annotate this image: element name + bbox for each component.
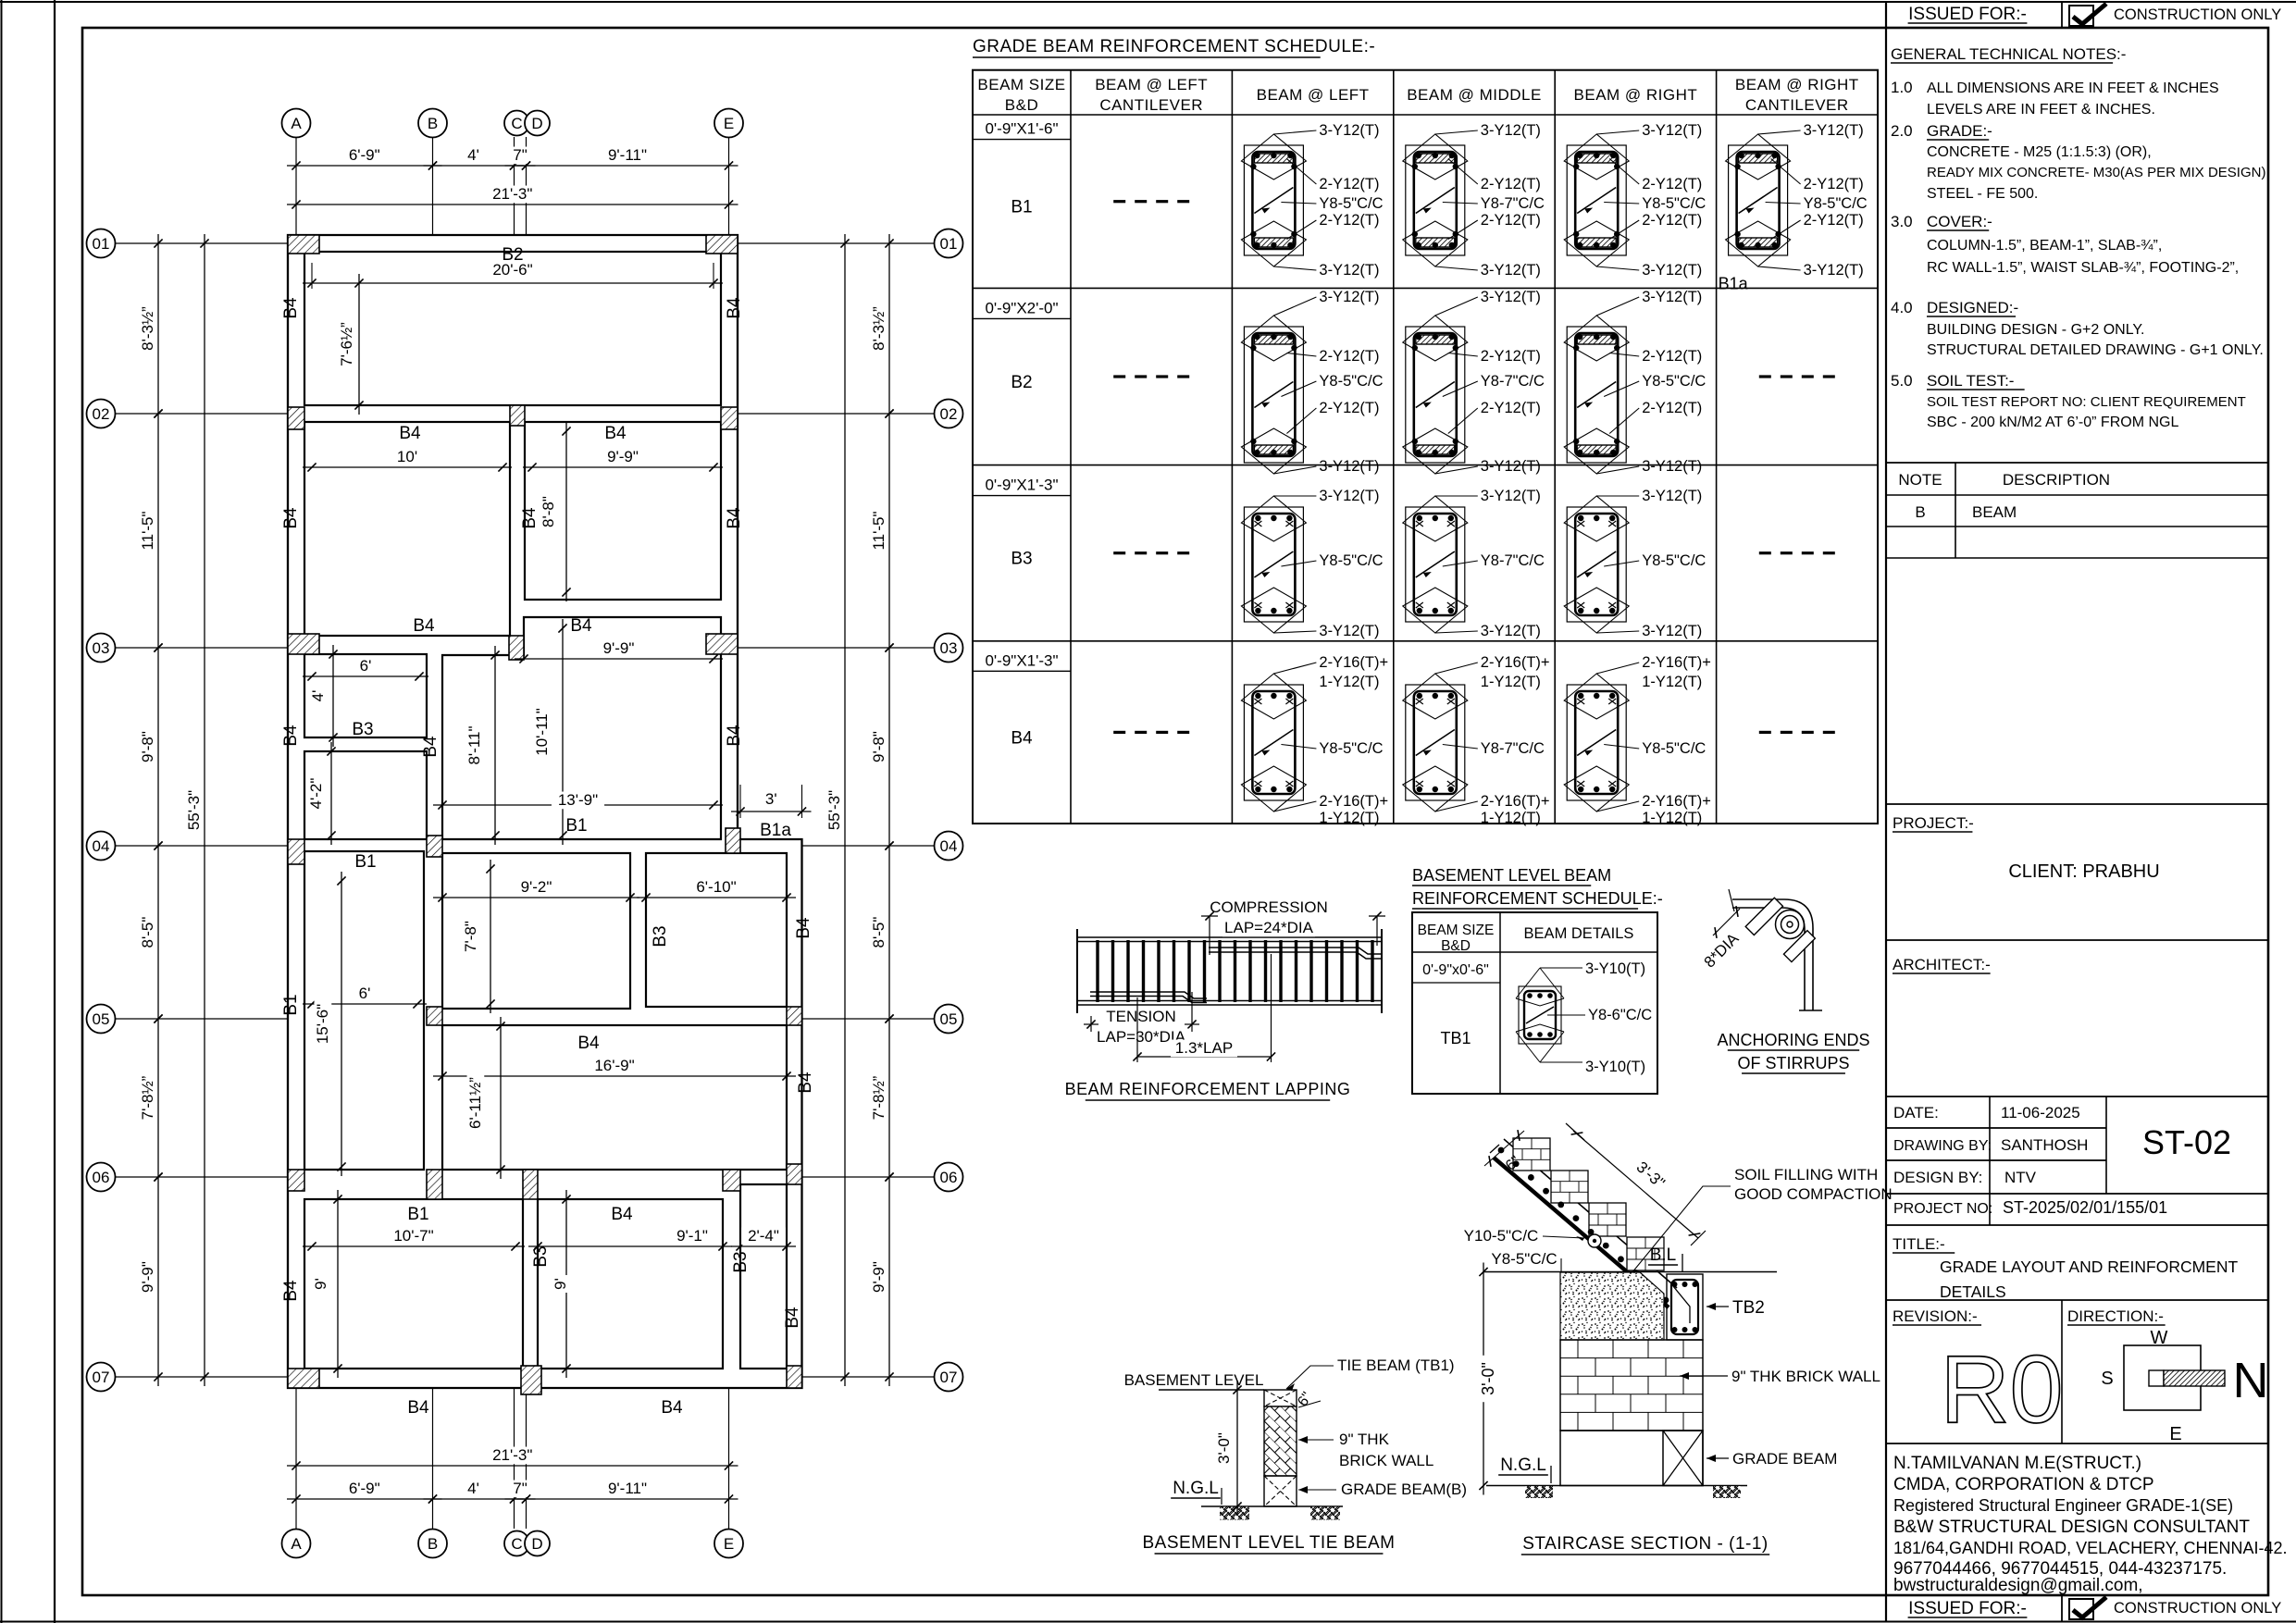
svg-text:CONCRETE - M25 (1:1.5:3) (OR): CONCRETE - M25 (1:1.5:3) (OR), bbox=[1927, 144, 2152, 160]
column hatch 18 bbox=[787, 1164, 802, 1184]
svg-text:07: 07 bbox=[940, 1369, 958, 1386]
perimeter wall outer outline bbox=[288, 235, 802, 1388]
dim 6-10 bbox=[637, 897, 796, 898]
svg-text:SANTHOSH: SANTHOSH bbox=[2001, 1136, 2088, 1154]
schedule column line bbox=[1716, 70, 1718, 824]
svg-text:SOIL TEST REPORT NO: CLIENT RE: SOIL TEST REPORT NO: CLIENT REQUIREMENT bbox=[1927, 394, 2246, 410]
svg-text:Y8-7"C/C: Y8-7"C/C bbox=[1481, 740, 1545, 757]
grid line row 05 left bbox=[115, 1018, 288, 1020]
dim 6ft B3 room bbox=[303, 675, 428, 677]
svg-text:STRUCTURAL DETAILED DRAWING -: STRUCTURAL DETAILED DRAWING - G+1 ONLY. bbox=[1927, 342, 2264, 358]
svg-text:CONSTRUCTION ONLY: CONSTRUCTION ONLY bbox=[2114, 1600, 2281, 1617]
svg-text:B1a: B1a bbox=[1719, 274, 1749, 292]
dashes B4 right cantilever bbox=[1759, 731, 1771, 734]
dim 8-8 bbox=[565, 422, 567, 601]
lapping top chord line1 bbox=[1077, 936, 1382, 938]
svg-text:2-Y12(T): 2-Y12(T) bbox=[1642, 400, 1702, 416]
column hatch 20 bbox=[521, 1366, 541, 1394]
svg-text:2-Y12(T): 2-Y12(T) bbox=[1319, 348, 1379, 365]
svg-text:2'-4": 2'-4" bbox=[748, 1227, 779, 1245]
svg-text:B4: B4 bbox=[725, 507, 744, 529]
grid bubble 03 right bbox=[935, 634, 963, 663]
beam section row B4 col RIGHT bbox=[1567, 685, 1626, 800]
svg-text:NOTE: NOTE bbox=[1898, 471, 1942, 489]
svg-text:BEAM REINFORCEMENT LAPPING: BEAM REINFORCEMENT LAPPING bbox=[1065, 1080, 1351, 1098]
svg-text:1-Y12(T): 1-Y12(T) bbox=[1319, 810, 1379, 826]
compass bbox=[2124, 1345, 2201, 1410]
column hatch 16 bbox=[523, 1170, 538, 1199]
svg-text:B4: B4 bbox=[577, 1034, 600, 1053]
column hatch 6 bbox=[288, 634, 319, 654]
svg-text:B.L: B.L bbox=[1650, 1245, 1677, 1265]
column hatch 3 bbox=[288, 407, 304, 429]
column hatch 12 bbox=[427, 1007, 442, 1025]
svg-text:9': 9' bbox=[552, 1278, 569, 1290]
grid line top bbox=[514, 137, 515, 235]
svg-text:7'-8": 7'-8" bbox=[462, 921, 479, 952]
svg-text:9'-8": 9'-8" bbox=[870, 731, 887, 762]
dim 10ft bbox=[303, 466, 512, 468]
stair step 4 bbox=[1627, 1237, 1664, 1270]
svg-text:Y10-5"C/C: Y10-5"C/C bbox=[1464, 1227, 1539, 1245]
svg-text:B4: B4 bbox=[399, 424, 421, 443]
grid bubble 07 right bbox=[935, 1363, 963, 1392]
svg-text:8'-3½”: 8'-3½” bbox=[139, 306, 156, 351]
svg-text:REVISION:-: REVISION:- bbox=[1893, 1307, 1978, 1325]
svg-text:R0: R0 bbox=[1941, 1336, 2064, 1443]
svg-text:2-Y12(T): 2-Y12(T) bbox=[1642, 212, 1702, 229]
svg-text:9'-11": 9'-11" bbox=[608, 1480, 647, 1497]
svg-text:2-Y12(T): 2-Y12(T) bbox=[1481, 212, 1541, 229]
svg-text:BEAM SIZE: BEAM SIZE bbox=[977, 76, 1065, 93]
compass magnet bbox=[2149, 1370, 2164, 1386]
dim 4 top bbox=[424, 165, 524, 167]
grid line top bbox=[526, 137, 527, 235]
svg-text:1-Y12(T): 1-Y12(T) bbox=[1481, 810, 1541, 826]
svg-text:3-Y10(T): 3-Y10(T) bbox=[1585, 960, 1645, 977]
svg-text:B1a: B1a bbox=[760, 821, 791, 840]
svg-text:B3: B3 bbox=[1011, 550, 1032, 569]
svg-text:01: 01 bbox=[93, 235, 110, 253]
svg-text:1-Y12(T): 1-Y12(T) bbox=[1642, 674, 1702, 690]
grid bubble C bottom bbox=[504, 1531, 529, 1556]
svg-text:3-Y12(T): 3-Y12(T) bbox=[1642, 262, 1702, 279]
3-0 dim staircase bbox=[1483, 1263, 1484, 1495]
svg-text:3'-0": 3'-0" bbox=[1479, 1362, 1497, 1395]
grid line bottom bbox=[514, 1388, 515, 1529]
svg-text:BRICK WALL: BRICK WALL bbox=[1339, 1452, 1433, 1469]
svg-text:13'-9": 13'-9" bbox=[558, 791, 598, 809]
svg-text:B1: B1 bbox=[565, 816, 587, 836]
svg-text:15'-6": 15'-6" bbox=[314, 1004, 331, 1044]
schedule row line bbox=[973, 465, 1878, 466]
grid line row 04 right bbox=[802, 845, 935, 847]
bar circle on slab bbox=[1588, 1234, 1601, 1247]
grid bubble 05 left bbox=[87, 1005, 116, 1034]
ground line bbox=[1486, 1485, 1747, 1487]
svg-text:6': 6' bbox=[359, 985, 371, 1002]
svg-text:Y8-5"C/C: Y8-5"C/C bbox=[1319, 552, 1383, 569]
svg-text:3-Y12(T): 3-Y12(T) bbox=[1481, 122, 1541, 139]
svg-text:2-Y12(T): 2-Y12(T) bbox=[1804, 176, 1864, 192]
lapping right end bar bbox=[1381, 929, 1383, 1013]
svg-text:OF STIRRUPS: OF STIRRUPS bbox=[1737, 1054, 1849, 1072]
svg-text:NTV: NTV bbox=[2004, 1169, 2037, 1186]
9in thk brick wall label bbox=[1680, 1375, 1728, 1377]
svg-text:9'-9": 9'-9" bbox=[870, 1261, 887, 1293]
dashes B4 left cantilever bbox=[1113, 731, 1125, 734]
svg-text:02: 02 bbox=[940, 405, 958, 423]
svg-text:TITLE:-: TITLE:- bbox=[1893, 1235, 1945, 1253]
svg-text:GENERAL TECHNICAL NOTES:-: GENERAL TECHNICAL NOTES:- bbox=[1891, 45, 2126, 63]
svg-text:8'-5": 8'-5" bbox=[870, 917, 887, 948]
dim 9-11 top bbox=[517, 165, 738, 167]
svg-text:B4: B4 bbox=[796, 1072, 815, 1094]
svg-text:N.TAMILVANAN M.E(STRUCT.): N.TAMILVANAN M.E(STRUCT.) bbox=[1893, 1454, 2141, 1473]
svg-text:05: 05 bbox=[940, 1010, 958, 1028]
B.L level line bbox=[1483, 1271, 1777, 1273]
schedule column line bbox=[1554, 70, 1556, 824]
dim 10-11 bbox=[562, 619, 564, 845]
dashes B2 left cantilever bbox=[1113, 375, 1125, 378]
svg-text:B3: B3 bbox=[352, 720, 373, 739]
svg-text:7": 7" bbox=[513, 1480, 527, 1497]
svg-text:3-Y12(T): 3-Y12(T) bbox=[1642, 458, 1702, 475]
svg-text:Registered Structural Engineer: Registered Structural Engineer GRADE-1(S… bbox=[1893, 1496, 2233, 1515]
schedule row line bbox=[973, 114, 1878, 116]
svg-text:GRADE BEAM(B): GRADE BEAM(B) bbox=[1341, 1481, 1467, 1498]
grade beam X box tie bbox=[1264, 1476, 1297, 1506]
lapping left end bar bbox=[1076, 929, 1078, 1013]
dashes B1 left cantilever bbox=[1113, 200, 1125, 203]
TIE BEAM label bbox=[1286, 1366, 1334, 1389]
svg-text:03: 03 bbox=[93, 639, 110, 657]
svg-text:181/64,GANDHI ROAD, VELACHERY,: 181/64,GANDHI ROAD, VELACHERY, CHENNAI-4… bbox=[1893, 1539, 2288, 1557]
svg-text:CANTILEVER: CANTILEVER bbox=[1745, 96, 1849, 114]
svg-text:8'-5": 8'-5" bbox=[139, 917, 156, 948]
svg-text:B4: B4 bbox=[725, 725, 744, 747]
svg-text:A: A bbox=[291, 1535, 302, 1553]
svg-text:6'-11½”: 6'-11½” bbox=[466, 1077, 484, 1129]
dim 7-8 bbox=[490, 860, 491, 1013]
svg-text:CANTILEVER: CANTILEVER bbox=[1099, 96, 1203, 114]
grid line row 01 right bbox=[738, 242, 934, 244]
grid bubble D bottom bbox=[525, 1531, 550, 1556]
svg-text:7'-8½”: 7'-8½” bbox=[870, 1075, 887, 1120]
beam section row B1 col RIGHT bbox=[1567, 145, 1626, 255]
svg-text:8'-8": 8'-8" bbox=[540, 496, 557, 527]
svg-text:2-Y16(T)+: 2-Y16(T)+ bbox=[1481, 654, 1550, 671]
svg-text:3-Y12(T): 3-Y12(T) bbox=[1642, 122, 1702, 139]
svg-text:3': 3' bbox=[765, 790, 777, 808]
dim 9-11 bottom bbox=[517, 1498, 738, 1500]
grid bubble 06 right bbox=[935, 1163, 963, 1192]
svg-text:PROJECT:-: PROJECT:- bbox=[1893, 814, 1974, 832]
8*DIA dim bbox=[1713, 909, 1740, 935]
svg-text:COMPRESSION: COMPRESSION bbox=[1210, 898, 1328, 916]
svg-text:1-Y12(T): 1-Y12(T) bbox=[1319, 674, 1379, 690]
svg-text:B3: B3 bbox=[651, 925, 670, 947]
svg-text:B4: B4 bbox=[725, 297, 744, 319]
tie beam X box bbox=[1264, 1390, 1297, 1406]
checkbox bottom bbox=[2069, 1599, 2093, 1619]
svg-text:3-Y12(T): 3-Y12(T) bbox=[1804, 122, 1864, 139]
svg-text:S: S bbox=[2101, 1369, 2113, 1389]
issued-for band top bbox=[2061, 2, 2063, 28]
issued-for band bottom bbox=[2061, 1595, 2063, 1622]
svg-text:3-Y12(T): 3-Y12(T) bbox=[1481, 623, 1541, 639]
svg-text:10'-7": 10'-7" bbox=[393, 1227, 433, 1245]
svg-text:N.G.L: N.G.L bbox=[1173, 1479, 1219, 1498]
lapping tension lap bars bbox=[1090, 992, 1207, 1003]
grid bubble E top bbox=[714, 109, 743, 138]
svg-text:9': 9' bbox=[312, 1278, 329, 1290]
beam section row B3 col LEFT bbox=[1244, 507, 1303, 622]
dim 21-3 bottom bbox=[287, 1465, 738, 1467]
dim 6ft B1 room bbox=[303, 1003, 427, 1005]
column hatch 10 bbox=[427, 836, 442, 857]
svg-text:0'-9"X2'-0": 0'-9"X2'-0" bbox=[985, 299, 1058, 316]
svg-text:Y8-5"C/C: Y8-5"C/C bbox=[1642, 195, 1706, 212]
lapping compression lap bars bbox=[1209, 948, 1381, 959]
dim 8-11 bbox=[494, 646, 496, 845]
svg-text:2-Y12(T): 2-Y12(T) bbox=[1642, 176, 1702, 192]
svg-text:04: 04 bbox=[940, 837, 958, 855]
wall lines room B1 15-6 bbox=[304, 851, 424, 1170]
svg-text:B4: B4 bbox=[570, 616, 592, 636]
svg-text:N.G.L: N.G.L bbox=[1500, 1456, 1546, 1475]
dim 21-3 top bbox=[287, 204, 738, 205]
dim 9-9 row2 bbox=[523, 466, 723, 468]
svg-text:B4: B4 bbox=[407, 1398, 429, 1418]
svg-text:B3: B3 bbox=[731, 1251, 751, 1272]
beam section row B4 col MIDDLE bbox=[1406, 685, 1465, 800]
grid bubble 05 right bbox=[935, 1005, 963, 1034]
svg-text:ST-2025/02/01/155/01: ST-2025/02/01/155/01 bbox=[2003, 1198, 2167, 1217]
svg-text:1-Y12(T): 1-Y12(T) bbox=[1481, 674, 1541, 690]
svg-text:3-Y12(T): 3-Y12(T) bbox=[1319, 458, 1379, 475]
6in dim at slab top bbox=[1484, 1131, 1524, 1166]
svg-text:3-Y12(T): 3-Y12(T) bbox=[1481, 488, 1541, 504]
svg-text:BEAM @ RIGHT: BEAM @ RIGHT bbox=[1735, 76, 1859, 93]
svg-text:COLUMN-1.5”, BEAM-1”, SLAB-¾”,: COLUMN-1.5”, BEAM-1”, SLAB-¾”, bbox=[1927, 238, 2162, 254]
column hatch 5 bbox=[721, 407, 738, 429]
dim 4ft bbox=[332, 645, 334, 747]
svg-text:9'-9": 9'-9" bbox=[139, 1261, 156, 1293]
grid line row 03 left bbox=[115, 647, 288, 649]
svg-text:BASEMENT LEVEL: BASEMENT LEVEL bbox=[1124, 1371, 1264, 1389]
svg-text:Y8-5"C/C: Y8-5"C/C bbox=[1642, 740, 1706, 757]
beam section row B2 col MIDDLE bbox=[1406, 327, 1465, 463]
svg-text:0'-9"x0'-6": 0'-9"x0'-6" bbox=[1422, 962, 1489, 978]
svg-text:B1: B1 bbox=[354, 852, 376, 872]
svg-text:DATE:: DATE: bbox=[1893, 1104, 1939, 1121]
sheet border left edge bbox=[1, 0, 3, 1623]
basement table header line bbox=[1412, 951, 1657, 953]
dim 9ft left bbox=[337, 1190, 339, 1378]
sheet bottom edge bbox=[0, 1621, 2296, 1623]
grid line row 02 right bbox=[738, 413, 934, 415]
svg-text:DESIGN BY:: DESIGN BY: bbox=[1893, 1169, 1982, 1186]
grid line row 07 right bbox=[802, 1376, 935, 1378]
grid line bottom bbox=[295, 1388, 297, 1529]
beam section row B2 col LEFT bbox=[1244, 327, 1303, 463]
svg-text:2-Y12(T): 2-Y12(T) bbox=[1804, 212, 1864, 229]
svg-text:9" THK: 9" THK bbox=[1339, 1431, 1390, 1448]
wall lines room B2 01-02 bbox=[304, 252, 721, 405]
svg-text:BASEMENT LEVEL TIE BEAM: BASEMENT LEVEL TIE BEAM bbox=[1142, 1533, 1395, 1553]
checkbox top bbox=[2069, 6, 2093, 26]
svg-text:E: E bbox=[724, 115, 734, 132]
svg-text:6'-9": 6'-9" bbox=[349, 1480, 380, 1497]
svg-text:10': 10' bbox=[397, 448, 417, 465]
wall lines room 9-2 bbox=[442, 853, 630, 1009]
svg-text:B4: B4 bbox=[281, 1280, 301, 1302]
svg-text:Y8-7"C/C: Y8-7"C/C bbox=[1481, 552, 1545, 569]
svg-text:4': 4' bbox=[467, 146, 479, 164]
svg-text:DIRECTION:-: DIRECTION:- bbox=[2067, 1307, 2164, 1325]
svg-text:Y8-7"C/C: Y8-7"C/C bbox=[1481, 195, 1545, 212]
schedule column line bbox=[1070, 70, 1072, 824]
svg-text:16'-9": 16'-9" bbox=[594, 1057, 634, 1074]
svg-text:2.0: 2.0 bbox=[1891, 122, 1913, 140]
svg-text:4.0: 4.0 bbox=[1891, 299, 1913, 316]
svg-text:2-Y16(T)+: 2-Y16(T)+ bbox=[1319, 793, 1388, 810]
svg-text:3'-0": 3'-0" bbox=[1215, 1432, 1233, 1464]
svg-text:Y8-5"C/C: Y8-5"C/C bbox=[1319, 740, 1383, 757]
dashes B3 left cantilever bbox=[1113, 551, 1125, 554]
svg-text:GOOD COMPACTION: GOOD COMPACTION bbox=[1734, 1185, 1893, 1203]
stair step 2 bbox=[1551, 1171, 1588, 1203]
dim 9-1 bbox=[528, 1245, 732, 1247]
svg-text:TENSION: TENSION bbox=[1106, 1008, 1176, 1025]
svg-text:9'-8": 9'-8" bbox=[139, 731, 156, 762]
svg-text:2-Y16(T)+: 2-Y16(T)+ bbox=[1319, 654, 1388, 671]
svg-text:RC WALL-1.5”, WAIST SLAB-¾”, F: RC WALL-1.5”, WAIST SLAB-¾”, FOOTING-2”, bbox=[1927, 260, 2239, 276]
svg-text:3-Y12(T): 3-Y12(T) bbox=[1319, 122, 1379, 139]
svg-text:7'-8½”: 7'-8½” bbox=[139, 1075, 156, 1120]
grid line row 01 left bbox=[115, 242, 288, 244]
soil hatch block bbox=[1560, 1272, 1664, 1340]
basement table column line bbox=[1499, 912, 1501, 1094]
column hatch 14 bbox=[288, 1170, 304, 1191]
waist slab bbox=[1504, 1139, 1677, 1288]
svg-text:3-Y12(T): 3-Y12(T) bbox=[1642, 623, 1702, 639]
svg-text:20'-6": 20'-6" bbox=[492, 261, 532, 279]
svg-text:B3: B3 bbox=[531, 1245, 551, 1267]
svg-text:4': 4' bbox=[309, 690, 327, 702]
svg-text:B1: B1 bbox=[1011, 198, 1032, 217]
svg-text:REINFORCEMENT SCHEDULE:-: REINFORCEMENT SCHEDULE:- bbox=[1412, 889, 1663, 908]
svg-text:4'-2": 4'-2" bbox=[307, 778, 325, 810]
grid line row 05 right bbox=[802, 1018, 935, 1020]
sheet top edge bbox=[0, 1, 2296, 3]
svg-text:Y8-5"C/C: Y8-5"C/C bbox=[1642, 373, 1706, 390]
svg-text:06: 06 bbox=[93, 1169, 110, 1186]
svg-text:01: 01 bbox=[940, 235, 958, 253]
svg-text:2-Y12(T): 2-Y12(T) bbox=[1319, 176, 1379, 192]
column hatch 7 bbox=[509, 636, 524, 660]
svg-text:5.0: 5.0 bbox=[1891, 372, 1913, 390]
lapping bottom chord line1 bbox=[1077, 1000, 1382, 1002]
svg-text:B1: B1 bbox=[407, 1205, 428, 1224]
svg-text:1-Y12(T): 1-Y12(T) bbox=[1642, 810, 1702, 826]
svg-text:7": 7" bbox=[513, 146, 527, 164]
dim 4-2 bbox=[330, 742, 332, 845]
svg-text:10'-11": 10'-11" bbox=[533, 708, 551, 756]
svg-text:8'-3½”: 8'-3½” bbox=[870, 306, 887, 351]
dim 15-6 bbox=[341, 872, 342, 1176]
svg-text:9'-9": 9'-9" bbox=[607, 448, 639, 465]
svg-text:ISSUED FOR:-: ISSUED FOR:- bbox=[1908, 5, 2027, 24]
svg-text:6'-10": 6'-10" bbox=[696, 878, 736, 896]
wall lines room 4-2 bbox=[304, 751, 427, 839]
svg-text:TB1: TB1 bbox=[1440, 1029, 1471, 1047]
grid line top bbox=[728, 137, 730, 235]
svg-text:2-Y12(T): 2-Y12(T) bbox=[1481, 400, 1541, 416]
svg-text:B: B bbox=[428, 115, 438, 132]
svg-text:SOIL TEST:-: SOIL TEST:- bbox=[1927, 372, 2014, 390]
svg-text:21'-3": 21'-3" bbox=[492, 185, 532, 203]
grid bubble 01 right bbox=[935, 229, 963, 258]
dim 13-9 bbox=[433, 804, 723, 806]
beam section row B1 col LEFT bbox=[1244, 145, 1303, 255]
svg-text:N: N bbox=[2233, 1353, 2269, 1408]
column hatch 13 bbox=[787, 1007, 802, 1025]
wall lines room 16-9 bbox=[442, 1025, 787, 1170]
svg-text:05: 05 bbox=[93, 1010, 110, 1028]
grade beam X box bbox=[1663, 1431, 1703, 1486]
svg-text:DESCRIPTION: DESCRIPTION bbox=[2003, 471, 2110, 489]
sheet inner margin line bbox=[54, 0, 56, 1623]
lapping stirrups bbox=[1096, 940, 1098, 1002]
title block left border bbox=[1885, 2, 1887, 1622]
svg-text:1.3*LAP: 1.3*LAP bbox=[1175, 1039, 1233, 1057]
svg-text:3-Y12(T): 3-Y12(T) bbox=[1481, 289, 1541, 305]
dim 20-6 bbox=[303, 282, 723, 284]
grid bubble 03 left bbox=[87, 634, 116, 663]
svg-text:21'-3": 21'-3" bbox=[492, 1446, 532, 1464]
svg-text:B4: B4 bbox=[421, 736, 441, 758]
svg-text:B4: B4 bbox=[661, 1398, 683, 1418]
dim 9ft mid bbox=[565, 1190, 567, 1378]
beam section TB1 bbox=[1519, 986, 1561, 1044]
svg-text:Y8-5"C/C: Y8-5"C/C bbox=[1491, 1250, 1557, 1268]
svg-text:ST-02: ST-02 bbox=[2142, 1123, 2231, 1161]
svg-text:BEAM SIZE: BEAM SIZE bbox=[1418, 923, 1495, 938]
svg-text:CLIENT: PRABHU: CLIENT: PRABHU bbox=[2008, 861, 2159, 882]
grid bubble 06 left bbox=[87, 1163, 116, 1192]
date/drawing rows bbox=[1886, 1096, 2268, 1097]
svg-text:55'-3": 55'-3" bbox=[825, 790, 843, 830]
svg-text:B: B bbox=[428, 1535, 438, 1553]
plinth below wall bbox=[1560, 1431, 1703, 1486]
svg-text:TIE BEAM (TB1): TIE BEAM (TB1) bbox=[1337, 1357, 1455, 1374]
svg-text:0'-9"X1'-3": 0'-9"X1'-3" bbox=[985, 477, 1058, 494]
svg-text:3-Y12(T): 3-Y12(T) bbox=[1481, 262, 1541, 279]
grid line top bbox=[432, 137, 434, 235]
svg-text:11'-5": 11'-5" bbox=[139, 511, 156, 550]
svg-text:CMDA, CORPORATION & DTCP: CMDA, CORPORATION & DTCP bbox=[1893, 1475, 2154, 1494]
svg-text:2-Y16(T)+: 2-Y16(T)+ bbox=[1481, 793, 1550, 810]
svg-text:Y8-5"C/C: Y8-5"C/C bbox=[1642, 552, 1706, 569]
svg-text:ISSUED FOR:-: ISSUED FOR:- bbox=[1908, 1599, 2027, 1618]
lapping top chord line2 bbox=[1077, 941, 1382, 943]
svg-text:BUILDING DESIGN - G+2 ONLY.: BUILDING DESIGN - G+2 ONLY. bbox=[1927, 322, 2144, 338]
svg-text:04: 04 bbox=[93, 837, 110, 855]
grid line row 06 right bbox=[802, 1176, 935, 1178]
wall lines room B1 10-7 bbox=[304, 1199, 523, 1369]
